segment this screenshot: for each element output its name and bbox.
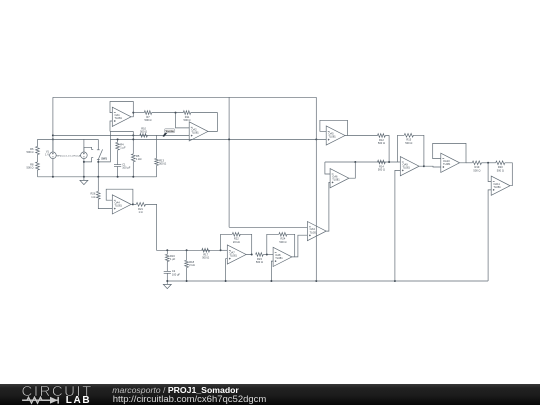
wire OA7 minus stub — [221, 249, 228, 251]
node dot OA11 input — [487, 162, 489, 164]
wire node line mid — [53, 134, 189, 136]
op-amp OA6 — [330, 169, 349, 188]
node dot switch bottom — [97, 161, 99, 163]
svg-text:500 Ω: 500 Ω — [145, 118, 152, 122]
svg-text:1 µF: 1 µF — [120, 146, 126, 150]
resistor R17 — [202, 248, 210, 259]
svg-text:500 Ω: 500 Ω — [27, 165, 34, 169]
node dot branch Ca — [166, 249, 168, 251]
resistor R20 — [496, 161, 505, 172]
op-amp OA11 — [491, 176, 510, 195]
wire OA3 output up — [326, 182, 330, 231]
wire R11 to OA2 output — [191, 113, 218, 132]
wire rail to R26 — [97, 177, 99, 192]
capacitor C1 — [114, 162, 131, 169]
wire OA1 plus node vertical — [132, 131, 134, 153]
node dot OA6 out tie — [354, 161, 356, 163]
resistor R22 — [232, 232, 240, 243]
node dot A — [175, 112, 177, 114]
svg-text:500 Ω: 500 Ω — [279, 240, 286, 244]
wire big box bottom — [229, 226, 307, 228]
wire input box left edge top — [37, 139, 39, 146]
svg-text:500 Ω: 500 Ω — [256, 260, 263, 264]
wire OA11 plus down — [488, 190, 491, 281]
op-amp OA10 — [441, 153, 460, 172]
wire R24 to OA8 output — [287, 234, 295, 257]
wire input box left edge bottom — [37, 170, 39, 177]
wire OA1 output — [133, 112, 144, 114]
wire input box bottom rail — [38, 176, 157, 178]
wire OA10 output — [466, 162, 472, 164]
svg-text:1 µF: 1 µF — [170, 257, 176, 261]
wire OA9 plus — [395, 170, 400, 281]
svg-text:TL081: TL081 — [115, 116, 123, 120]
wire OA8 output to OA3 plus — [295, 235, 308, 257]
wire OA8 feedback up — [267, 234, 279, 254]
wire V2 top — [83, 139, 85, 152]
svg-text:TL081: TL081 — [275, 256, 283, 260]
resistor R24 — [279, 232, 287, 243]
wire OA4 feedback — [106, 189, 133, 204]
node dot branch Rb — [186, 249, 188, 251]
svg-text:2 kΩ: 2 kΩ — [189, 263, 194, 267]
node label flag Vsoma — [163, 129, 175, 137]
wire R19 to node — [482, 162, 496, 164]
wire R15 to OA9 output — [413, 135, 424, 166]
wire OA7 plus — [226, 259, 228, 281]
op-amp OA4 — [112, 195, 131, 214]
wire left drop from top rail — [52, 97, 54, 152]
voltage source V2 — [81, 152, 88, 159]
ground GND2 — [163, 284, 171, 288]
wire R18 bottom — [186, 268, 188, 282]
svg-text:TL081: TL081 — [493, 185, 501, 189]
wire R20 to OA11 output — [505, 163, 512, 186]
wire OA10 loop — [433, 143, 466, 162]
capacitor C2 — [164, 269, 181, 276]
wire OA9 feedback up — [398, 135, 405, 162]
wire OA9 output to OA10 plus — [424, 165, 441, 168]
resistor R21 — [136, 203, 145, 214]
wire OA1 plus stub — [110, 121, 112, 131]
node dot OA9 output — [423, 165, 425, 167]
svg-text:SW1: SW1 — [101, 157, 107, 161]
node dots bottom rail right — [186, 280, 396, 282]
wire ground stub 2 — [166, 281, 168, 284]
svg-text:100 µF: 100 µF — [172, 272, 181, 276]
svg-text:500 Ω: 500 Ω — [159, 162, 166, 166]
resistor R16 — [165, 250, 175, 261]
svg-text:TL081: TL081 — [230, 254, 238, 258]
node dot mid line — [132, 134, 134, 136]
wire R23 to OA8 — [263, 254, 273, 256]
resistor R5 — [131, 154, 141, 162]
wire C1 bottom — [117, 167, 119, 177]
wire node line lower — [110, 138, 326, 140]
node dot gnd2 — [166, 280, 168, 282]
svg-text:TL081: TL081 — [403, 165, 411, 169]
svg-text:500 Ω: 500 Ω — [140, 130, 147, 134]
op-amp OA9 — [400, 157, 419, 176]
resistor R8 — [27, 162, 40, 170]
svg-text:500 Ω: 500 Ω — [405, 141, 412, 145]
op-amp OA5 — [326, 126, 345, 145]
wire V2 bottom — [83, 159, 85, 177]
wire node down to OA11 minus — [488, 163, 491, 182]
label V2 expression — [57, 155, 82, 158]
wire R21 down to sum line — [146, 204, 221, 250]
svg-text:1 V: 1 V — [45, 153, 49, 157]
svg-text:1 Ω: 1 Ω — [138, 210, 142, 214]
wire R13 tap — [156, 135, 158, 158]
svg-text:TL081: TL081 — [115, 204, 123, 208]
wire top rail — [53, 96, 316, 98]
wire node A to OA2 minus — [176, 113, 190, 128]
resistor R6 — [27, 147, 40, 155]
svg-text:TL081: TL081 — [443, 162, 451, 166]
resistor R18 — [185, 250, 195, 267]
wire OA6 minus loop — [325, 162, 330, 174]
svg-text:500 Ω: 500 Ω — [27, 150, 34, 154]
resistor R14 — [378, 160, 386, 171]
svg-text:20 kΩ: 20 kΩ — [233, 240, 240, 244]
wire R4 to C1 — [117, 150, 119, 165]
node dot OA8 input — [266, 254, 268, 256]
resistor R15 — [404, 133, 413, 144]
node dot sum node — [388, 161, 390, 163]
wire OA6 output up — [349, 162, 355, 178]
svg-text:MP(0,0.2,1,1.5,1.8V) LAB: MP(0,0.2,1,1.5,1.8V) LAB — [57, 155, 82, 158]
wire ground stub — [83, 177, 85, 181]
node dot OA4 output — [132, 203, 134, 205]
node dots lower line — [117, 138, 318, 140]
svg-text:1 kΩ: 1 kΩ — [136, 157, 141, 161]
node dot OA7 output — [251, 254, 253, 256]
wire big box left edge — [228, 97, 230, 227]
svg-text:100 µF: 100 µF — [122, 166, 131, 170]
ground GND1 — [80, 180, 88, 184]
wire input box top-left rail — [38, 138, 99, 140]
wire V1 top — [52, 139, 54, 152]
wire OA1 feedback — [110, 102, 133, 117]
switch SW1 — [97, 139, 108, 176]
wire row2 line — [325, 161, 400, 163]
wire R7 to node A — [152, 112, 184, 114]
resistor R7 — [144, 111, 151, 122]
svg-text:500 Ω: 500 Ω — [473, 168, 480, 172]
op-amp OA3 — [307, 222, 326, 241]
svg-text:500 Ω: 500 Ω — [184, 118, 191, 122]
svg-text:TL081: TL081 — [332, 177, 340, 181]
svg-text:500 Ω: 500 Ω — [378, 168, 385, 172]
svg-text:1 Ω: 1 Ω — [91, 195, 95, 199]
svg-text:500 Ω: 500 Ω — [202, 256, 209, 260]
wire R16 to C2 — [166, 262, 168, 272]
resistor R10 — [140, 127, 148, 138]
resistor R12 — [378, 134, 386, 145]
node dots bottom rail — [52, 176, 134, 178]
voltage source V1 — [45, 150, 56, 159]
wire V2 bracket — [84, 147, 93, 162]
logo resistor-diode art — [22, 396, 66, 405]
wire between R6 R8 — [37, 155, 39, 163]
node junction dots on V1 column — [52, 134, 54, 140]
wire OA8 plus — [271, 261, 273, 281]
wire bottom rail — [167, 280, 488, 282]
wire R13 bottom corner — [156, 165, 158, 176]
svg-text:Vsoma: Vsoma — [165, 130, 174, 133]
node dot OA7 input — [220, 249, 222, 251]
wire switch bypass — [98, 131, 133, 162]
op-amp OA8 — [273, 247, 292, 266]
resistor R13 — [155, 158, 166, 165]
node dot V2 bracket — [83, 161, 85, 163]
resistor R19 — [472, 161, 481, 172]
node dot OA1 output — [132, 112, 134, 114]
wire C2 bottom — [166, 273, 168, 281]
wire OA5 output — [348, 135, 378, 137]
svg-text:TL081: TL081 — [191, 131, 199, 135]
wire R26 to OA4 plus — [98, 199, 112, 208]
wire R22 to OA7 output — [240, 234, 251, 254]
svg-text:500 Ω: 500 Ω — [497, 168, 504, 172]
wire R5 bottom — [132, 162, 134, 177]
wire R12 down to sum node — [385, 136, 389, 163]
resistor R11 — [183, 111, 190, 122]
wire OA5 feedback — [320, 120, 348, 135]
svg-text:500 Ω: 500 Ω — [378, 141, 385, 145]
resistor R4 — [116, 139, 126, 150]
op-amp OA1 — [112, 107, 131, 126]
wire V1 bottom — [52, 159, 54, 177]
op-amp OA7 — [227, 245, 246, 264]
wire big box right edge — [315, 97, 317, 281]
resistor R26 — [91, 191, 101, 199]
op-amp OA2 — [189, 122, 208, 141]
wire OA7 feedback up — [221, 234, 233, 250]
wire OA4 output — [133, 203, 136, 205]
svg-text:TL081: TL081 — [328, 135, 336, 139]
resistor R23 — [256, 253, 264, 264]
